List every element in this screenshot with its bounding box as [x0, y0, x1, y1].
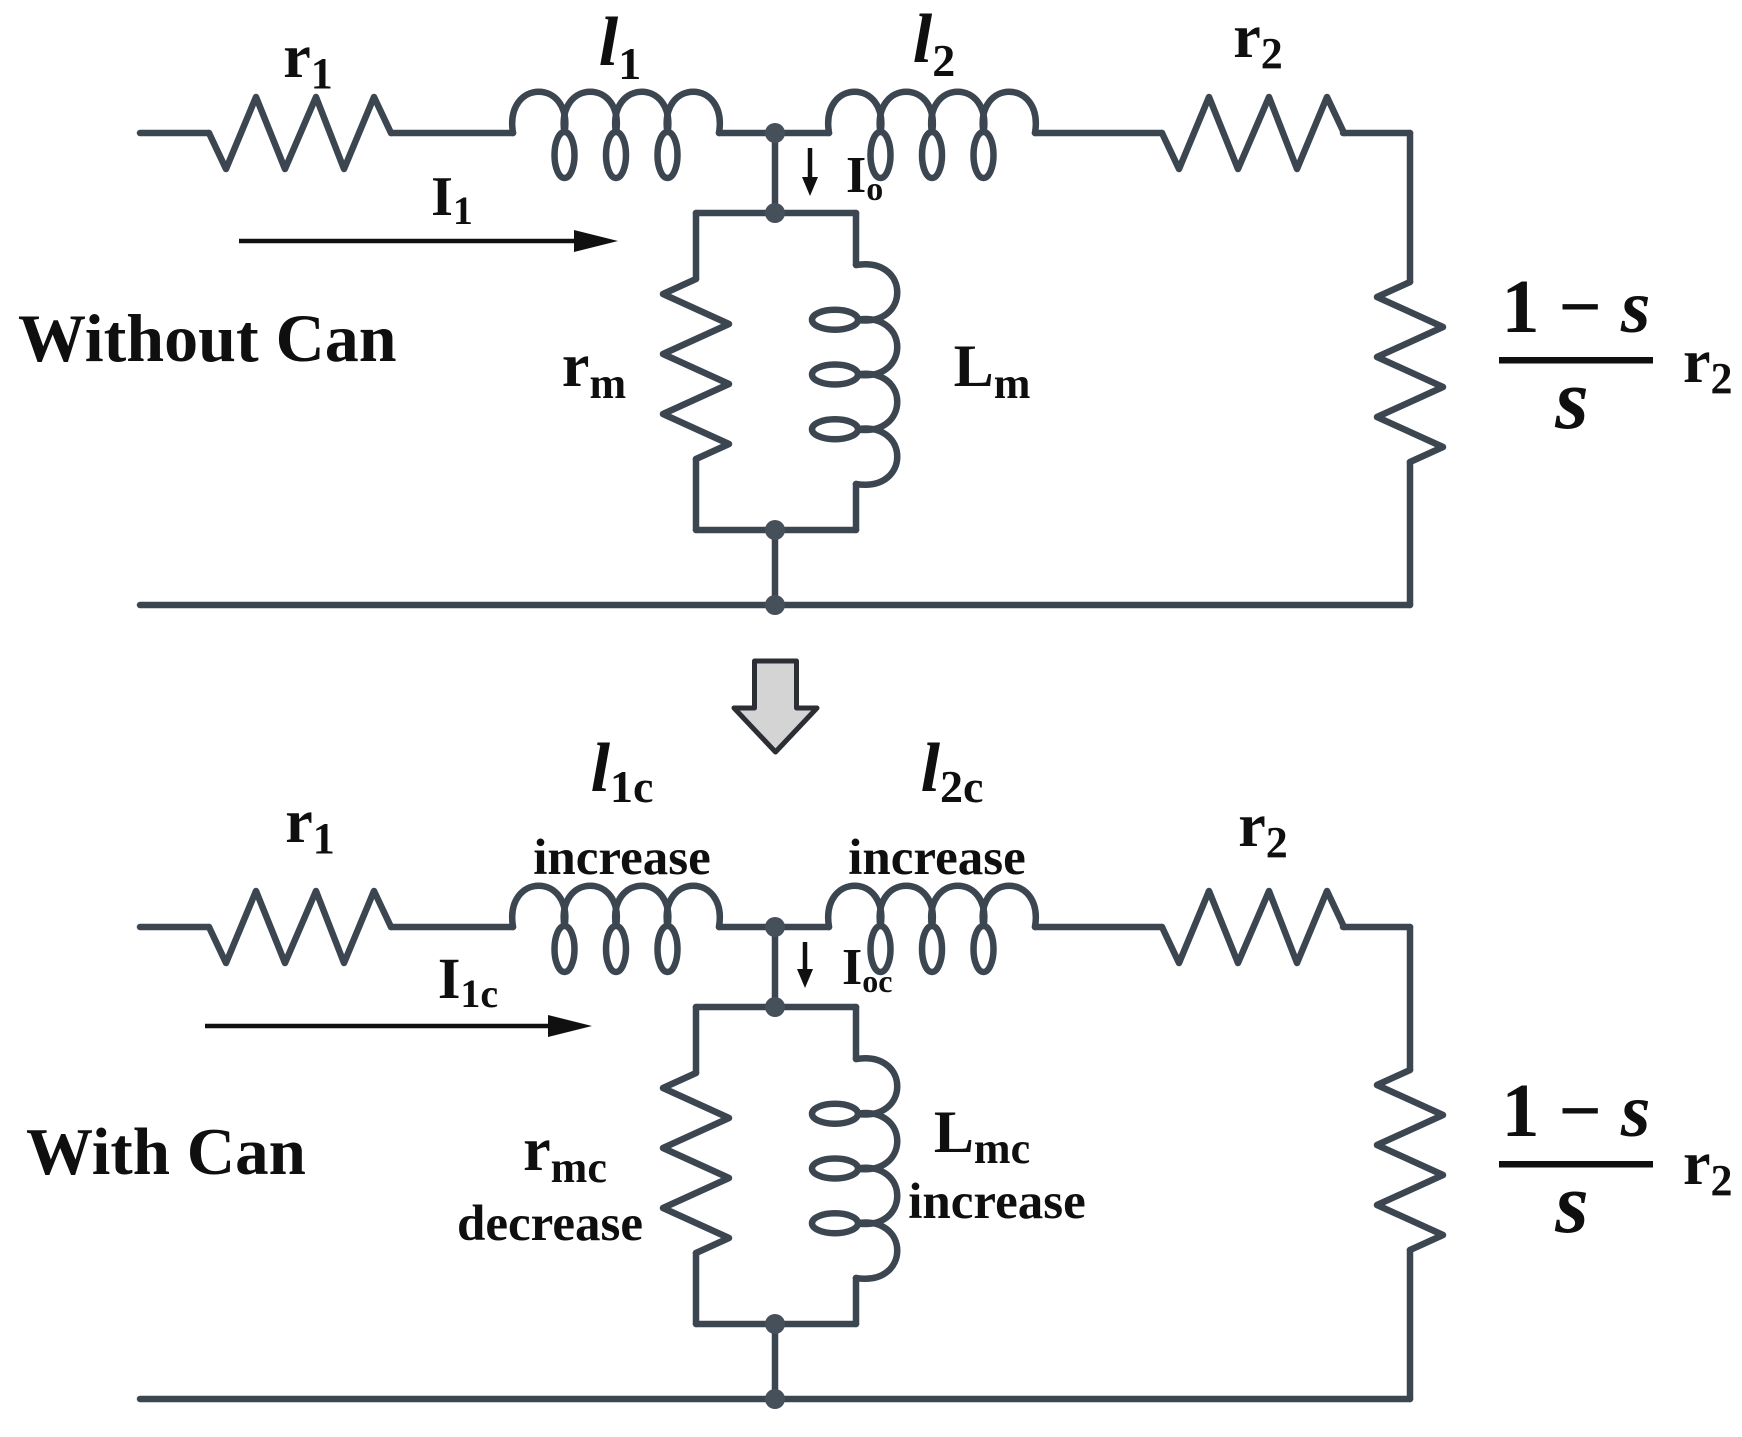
node top junctionc	[765, 917, 785, 937]
wire Lm top stem	[853, 213, 860, 265]
inductor l1c	[512, 886, 720, 972]
label (1-s)/s fraction bottom	[1499, 1069, 1653, 1251]
wire bottom rail	[140, 1396, 1410, 1403]
resistor r1c	[209, 891, 391, 963]
wire l1 to l2 through node	[719, 130, 829, 137]
node parallel topc	[765, 997, 785, 1017]
wire right drop	[1407, 927, 1414, 1070]
svg-text:With Can: With Can	[26, 1115, 306, 1189]
wire l2 to r2	[1035, 130, 1162, 137]
wire r2 to corner	[1343, 924, 1410, 931]
wire branch to rail	[772, 530, 779, 605]
wire Lm bottom stem	[853, 1278, 860, 1324]
wire bottom rail	[140, 602, 1410, 609]
node parallel bottomc	[765, 1314, 785, 1334]
wire parallel bottom bar	[696, 1321, 856, 1328]
svg-text:increase: increase	[848, 830, 1026, 886]
arrow I1 current	[239, 230, 618, 252]
resistor (1-s)/s r2 load	[1377, 282, 1443, 462]
svg-text:Without Can: Without Can	[18, 300, 397, 376]
inductor l2	[828, 92, 1036, 178]
transform block arrow	[734, 661, 817, 752]
wire rm bottom stem	[693, 459, 700, 530]
wire r1 to l1	[391, 130, 513, 137]
inductor Lmc magnetizing	[812, 1058, 897, 1279]
wire rm top stem	[693, 1007, 700, 1073]
node rail junction	[765, 595, 785, 615]
resistor (1-s)/s r2c load	[1377, 1070, 1443, 1250]
node parallel top	[765, 203, 785, 223]
node parallel bottom	[765, 520, 785, 540]
svg-text:1 − s: 1 − s	[1502, 265, 1651, 349]
wire rm bottom stem	[693, 1253, 700, 1324]
svg-text:increase: increase	[908, 1174, 1086, 1230]
wire branch to rail	[772, 1324, 779, 1399]
resistor r2c	[1162, 891, 1344, 963]
resistor rm magnetizing	[663, 279, 729, 459]
svg-text:s: s	[1554, 1155, 1588, 1251]
wire r1 to l1	[391, 924, 513, 931]
resistor r2	[1162, 97, 1344, 169]
node top junction	[765, 123, 785, 143]
inductor Lm magnetizing	[812, 264, 897, 485]
wire Lm bottom stem	[853, 484, 860, 530]
wire load to rail	[1407, 462, 1414, 605]
resistor r1	[209, 97, 391, 169]
wire right drop	[1407, 133, 1414, 282]
inductor l2c	[828, 886, 1036, 972]
wire input lead	[140, 130, 209, 137]
svg-text:increase: increase	[533, 830, 711, 886]
arrow Ioc current	[797, 942, 813, 988]
wire load to rail	[1407, 1250, 1414, 1399]
arrow Io current	[802, 148, 818, 196]
wire node drop	[772, 133, 779, 213]
wire node drop	[772, 927, 779, 1007]
resistor rmc magnetizing	[663, 1073, 729, 1253]
wire parallel top bar	[696, 210, 856, 217]
wire parallel bottom bar	[696, 527, 856, 534]
wire parallel top bar	[696, 1004, 856, 1011]
wire r2 to corner	[1343, 130, 1410, 137]
wire input lead	[140, 924, 209, 931]
wire l2 to r2	[1035, 924, 1162, 931]
wire Lm top stem	[853, 1007, 860, 1059]
inductor l1	[512, 92, 720, 178]
wire l1 to l2 through node	[719, 924, 829, 931]
svg-text:s: s	[1554, 351, 1588, 447]
node rail junctionc	[765, 1389, 785, 1409]
svg-text:decrease: decrease	[457, 1196, 643, 1252]
wire rm top stem	[693, 213, 700, 279]
arrow I1c current	[205, 1015, 592, 1037]
label (1-s)/s fraction top	[1499, 265, 1653, 447]
svg-text:1 − s: 1 − s	[1502, 1069, 1651, 1153]
